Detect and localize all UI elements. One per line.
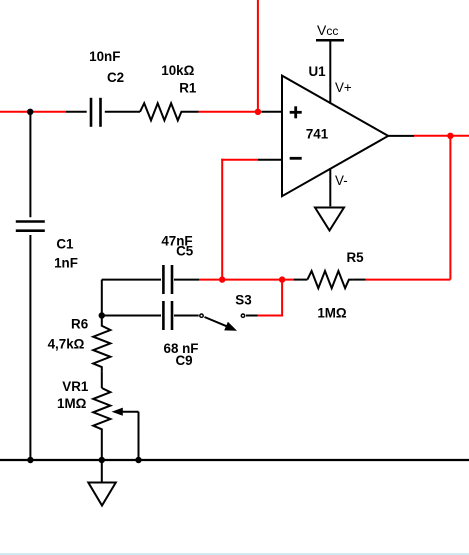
wire Vcc to V+ pin [329, 41, 331, 104]
wire ground rail [0, 459, 469, 461]
node junction dot black at left wire [27, 109, 33, 115]
op-amp U1 pin stub + [262, 111, 282, 113]
svg-text:V+: V+ [335, 80, 352, 95]
capacitor C5 [102, 265, 199, 294]
op-amp U1 pin stub - [258, 159, 282, 161]
svg-text:R6: R6 [71, 317, 88, 332]
op-amp U1 triangle [282, 76, 388, 197]
node rail dot wiper [135, 457, 141, 463]
wire feedback node to R5 node red [222, 279, 293, 281]
wire C1 bottom to ground rail [29, 235, 31, 460]
resistor R6 [93, 316, 110, 372]
svg-text:10nF: 10nF [89, 49, 120, 64]
svg-text:C2: C2 [107, 70, 124, 85]
wire op-amp output black stub [388, 135, 414, 137]
op-amp plus symbol [290, 106, 302, 118]
wire R5 right red [366, 279, 451, 281]
wire rail to ground symbol [101, 460, 103, 482]
wire minus input vertical red [221, 159, 223, 280]
node feedback junction dot red [219, 276, 225, 282]
Vcc bar [316, 39, 344, 42]
wire minus input horizontal red [221, 159, 258, 161]
svg-text:C1: C1 [56, 237, 74, 252]
node rail dot center [99, 457, 105, 463]
wire wiper down to rail [138, 412, 140, 460]
capacitor C2 [66, 98, 140, 127]
resistor R1 [140, 103, 199, 120]
switch S3 left contact [200, 314, 203, 317]
wire C5 branch down to C9 row [101, 280, 103, 316]
switch S3 blade with arrow [205, 317, 238, 331]
node output junction dot red [447, 133, 453, 139]
wire top vertical red to +input [257, 0, 259, 112]
wire R6 to VR1 [101, 371, 103, 388]
wire output down right side red [449, 136, 451, 280]
node R5 branch junction dot red [279, 276, 285, 282]
wire +input net horizontal left red [0, 111, 66, 113]
wire V- pin to ground [329, 168, 331, 206]
op-amp minus symbol [290, 157, 302, 160]
svg-text:4,7kΩ: 4,7kΩ [48, 337, 85, 352]
svg-text:S3: S3 [235, 293, 251, 308]
svg-text:Vcc: Vcc [317, 22, 338, 38]
node rail dot left [27, 457, 33, 463]
wire S3 right contact black lead [246, 315, 258, 317]
svg-text:R5: R5 [346, 250, 364, 265]
svg-text:V-: V- [335, 173, 348, 188]
wire C5 right red to feedback node [199, 279, 222, 281]
svg-text:VR1: VR1 [62, 379, 89, 394]
switch S3 right contact [241, 314, 244, 317]
capacitor C1 [16, 222, 45, 231]
potentiometer wiper arrow [112, 408, 139, 416]
ground under op-amp [315, 208, 344, 231]
svg-text:C5: C5 [176, 244, 194, 259]
svg-text:C9: C9 [175, 353, 192, 368]
svg-text:R1: R1 [179, 81, 197, 96]
capacitor C9 [102, 301, 199, 330]
svg-text:U1: U1 [308, 64, 326, 79]
resistor R5 [294, 271, 366, 288]
wire left vertical black to C1 [29, 112, 31, 217]
wire R1 to op-amp red [199, 111, 263, 113]
svg-text:1MΩ: 1MΩ [317, 306, 347, 321]
node junction dot red at op-amp input [255, 109, 261, 115]
svg-text:1nF: 1nF [54, 256, 78, 271]
wire S3 to R5 node red [258, 280, 283, 316]
svg-text:741: 741 [306, 126, 329, 141]
divider light blue line at bottom [0, 553, 469, 555]
svg-text:10kΩ: 10kΩ [161, 63, 194, 78]
node junction dot black R6 top [99, 312, 105, 318]
svg-text:1MΩ: 1MΩ [57, 396, 87, 411]
ground bottom [88, 483, 116, 506]
potentiometer VR1 [93, 388, 110, 460]
wire output red to right edge [414, 135, 469, 137]
